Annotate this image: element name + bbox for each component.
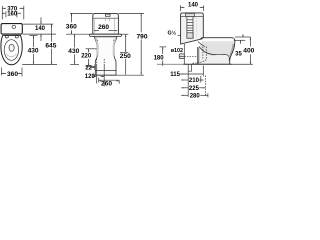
- dim 790 top ext: [118, 12, 144, 14]
- svg-text:G½: G½: [167, 30, 176, 37]
- dim 225 row: [181, 87, 188, 89]
- svg-text:430: 430: [68, 48, 79, 55]
- side under-bowl curve: [199, 47, 230, 61]
- dim 220 ext top: [86, 48, 97, 50]
- side button band: [186, 13, 195, 16]
- dim 360 bottom tick right: [21, 68, 23, 77]
- hidden drain verticals: [97, 59, 105, 64]
- seat ext line: [235, 36, 250, 38]
- chain tick near base: [202, 66, 204, 77]
- dim 220 ext bottom: [86, 65, 96, 67]
- dim 790 text: [136, 33, 148, 40]
- hinge dots: [97, 40, 98, 41]
- seat shadow line: [95, 36, 116, 38]
- svg-text:210: 210: [189, 78, 200, 84]
- svg-text:22: 22: [85, 65, 92, 71]
- svg-text:160: 160: [7, 12, 18, 18]
- dim 400 vertical: [249, 37, 251, 46]
- svg-text:430: 430: [28, 48, 39, 55]
- svg-text:115: 115: [170, 72, 180, 78]
- dim 645 vertical: [51, 24, 53, 42]
- svg-text:360: 360: [7, 71, 18, 78]
- svg-text:140: 140: [35, 26, 46, 32]
- G half leader: [178, 34, 181, 36]
- dim 140 plan vertical (outside arrows): [40, 17, 42, 24]
- dim 790 vertical: [140, 13, 142, 32]
- ext line top level with hook: [70, 12, 93, 14]
- seat white band: [203, 38, 234, 41]
- front lid seam: [93, 17, 119, 19]
- side cistern body: [181, 13, 204, 44]
- side back shoulder: [198, 42, 205, 47]
- dim 180 tick top: [160, 46, 167, 48]
- cistern inner wall lines: [93, 18, 95, 34]
- pedestal shading left: [96, 38, 98, 56]
- svg-text:250: 250: [120, 53, 131, 60]
- svg-text:180: 180: [154, 56, 165, 62]
- dim 250 ext: [120, 33, 129, 35]
- floor line front: [93, 74, 123, 76]
- dim 160 arrows: [4, 13, 6, 14]
- chain tick dashed: [204, 76, 206, 96]
- side front face: [230, 43, 235, 65]
- plan bowl outer outline: [1, 35, 22, 64]
- dim 210 row: [181, 79, 188, 81]
- dim 180 vertical: [162, 47, 164, 54]
- ext line rect-bottom level: [23, 33, 56, 35]
- dim 160 tick left: [5, 11, 7, 17]
- dim 430 col vertical: [74, 34, 76, 47]
- dim 35 vertical: [242, 34, 244, 37]
- dim 360 bottom arrows: [1, 73, 4, 74]
- dim 140 side ticks: [179, 5, 181, 11]
- side seat top: [200, 38, 234, 43]
- chain tick end: [207, 93, 209, 97]
- plan seat inner ring: [4, 40, 18, 61]
- dim 370 arrows: [2, 8, 5, 9]
- plan cistern rectangle: [1, 24, 22, 34]
- svg-text:260: 260: [98, 24, 109, 31]
- front cistern body: [93, 13, 119, 34]
- svg-text:120: 120: [85, 74, 96, 80]
- plan flush hole: [9, 44, 14, 51]
- dim 260 top arrows: [93, 30, 96, 31]
- bowl front shading: [230, 44, 234, 56]
- svg-text:360: 360: [66, 24, 77, 31]
- dim 260 bottom line: [99, 79, 120, 81]
- front base seam: [95, 70, 116, 72]
- svg-text:35: 35: [235, 51, 242, 57]
- pedestal shading right: [114, 38, 116, 56]
- dim 140 side arrows: [180, 7, 183, 8]
- floor line right: [157, 63, 183, 65]
- ext line rect-top level: [23, 23, 53, 25]
- dim 645 bottom tick: [22, 63, 57, 65]
- dim 370 tick left: [1, 6, 3, 20]
- front lid button: [105, 14, 110, 16]
- button stem below seam: [105, 18, 107, 21]
- side pedestal back double: [196, 47, 198, 64]
- side bowl back edge: [183, 44, 185, 64]
- ext line mid level: [66, 33, 93, 35]
- plan flush button: [12, 25, 16, 28]
- dim 430 plan vertical: [33, 35, 35, 47]
- side lid seam: [181, 16, 204, 18]
- dim 430 col bottom tick: [70, 63, 79, 65]
- dim 360 bottom tick left: [0, 68, 2, 76]
- plan hinge boss left: [5, 36, 8, 38]
- dim 790 bottom ext: [123, 74, 144, 76]
- inner bowl arc: [6, 54, 17, 57]
- seat ext line 2: [234, 39, 246, 41]
- svg-text:220: 220: [81, 54, 92, 60]
- chain wall line: [187, 71, 189, 97]
- dim 220 vertical: [88, 49, 90, 53]
- svg-text:280: 280: [190, 93, 201, 99]
- side flush mech: [187, 17, 193, 39]
- side hidden trap: [184, 47, 206, 64]
- svg-text:790: 790: [136, 34, 147, 41]
- svg-text:140: 140: [188, 3, 199, 9]
- plan hinge boss right: [15, 36, 18, 38]
- side outlet stub: [179, 54, 184, 59]
- chain tick mid: [200, 76, 202, 83]
- below-floor outlet U: [188, 64, 191, 71]
- base light fill: [199, 50, 229, 64]
- front seat band: [90, 34, 122, 36]
- svg-text:645: 645: [45, 43, 56, 50]
- dim 160 tick right: [16, 11, 18, 17]
- dim 430 plan top tick: [30, 34, 38, 36]
- dim 280 row: [181, 94, 188, 96]
- front pedestal outline: [94, 37, 117, 76]
- svg-text:400: 400: [243, 48, 254, 55]
- under-bowl shading: [201, 49, 215, 55]
- svg-text:ø102: ø102: [171, 48, 183, 54]
- svg-text:260: 260: [101, 81, 112, 88]
- plan seat hinge line: [3, 34, 21, 36]
- svg-text:225: 225: [189, 86, 200, 92]
- side bowl body fill: [199, 38, 234, 55]
- dim 370 tick right: [23, 6, 25, 20]
- dim 250 vertical: [125, 34, 127, 52]
- dim 360 col vertical: [71, 13, 73, 22]
